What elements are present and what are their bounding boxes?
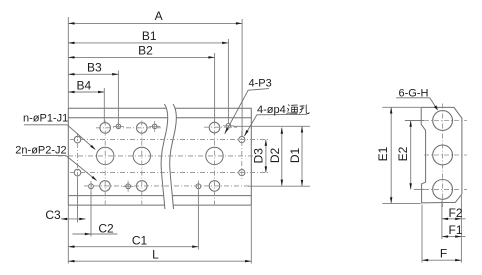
crosshair tiny top #3 [223,125,234,127]
hole side left upper [74,136,81,143]
svg-text:F: F [440,247,447,261]
centerline bottom hole row [84,185,250,187]
ext line F center column [441,201,443,240]
leader 4-op4 tail [244,114,307,136]
svg-text:L: L [152,247,159,261]
arrow B4 right [98,91,104,93]
svg-text:F1: F1 [448,223,462,237]
arrow F right [455,259,461,262]
dim line B1 [68,42,228,44]
hole G-H middle [433,145,453,165]
ext line E1 top [382,106,420,108]
ext line D1/D2 bottom [248,185,310,187]
arrow F1 left [442,235,448,238]
svg-text:n-øP1-J1: n-øP1-J1 [23,113,68,125]
arrow B1 left [68,42,74,45]
leader 2n-oP2-J2 line [66,156,96,181]
hole G-H top [433,111,453,131]
hole p4 tiny bottom #2 [126,184,131,189]
arrow E1 top [390,107,393,113]
centerline side view vertical [442,104,444,208]
arrow C3 outer-left [61,218,67,221]
hole P3 top row #1 [100,123,111,134]
leader 4-P3 tail [225,89,269,134]
label tongkong (through hole) glyphs [287,105,310,114]
center lines [58,121,270,207]
plate bottom chamfer line (left section) [68,195,163,197]
dim line A [68,22,242,24]
arrow B2 right [208,56,214,59]
glyph tong [287,105,298,114]
dim line E1 [390,107,392,203]
leader 2n-oP2-J2 underline [22,155,66,157]
plate top edge (right section) [175,107,251,109]
dim line F1 [442,236,466,238]
hole p4 tiny bottom #3 (right section) [196,184,201,189]
dim line F [422,259,461,261]
ext line C1 right [197,192,199,250]
svg-text:4-P3: 4-P3 [249,78,272,90]
arrow D1 bottom [301,180,303,186]
hole G-H bottom [433,180,453,200]
crosshair tiny top #1 [113,125,124,127]
arrow D2 bottom [281,180,284,186]
dim line C3 [61,218,86,220]
ext line E2 top [405,120,424,122]
svg-text:F2: F2 [448,206,462,220]
plate bottom edge (left section) [68,204,164,206]
crosshair tiny bottom #3 [197,181,199,192]
svg-text:D1: D1 [288,148,302,164]
hole P2 bottom row #2 [137,181,148,192]
tiny hole crosshairs [91,121,234,192]
leader n-oP1-J1 underline [24,124,67,126]
plate bottom chamfer line (right section) [172,195,251,197]
dim line D3 [265,140,267,173]
centerline column 3 [214,121,216,207]
ext line B2 right [214,53,216,123]
ext line common left [67,17,69,108]
arrow L right [245,260,251,263]
dim line C1 [68,246,198,248]
ext line A right [241,19,243,137]
arrow B4 left [68,91,74,93]
plate top chamfer line (right section) [176,117,251,119]
centerline main middle row [58,155,256,157]
svg-text:D3: D3 [252,148,266,164]
dim line B2 [68,56,214,58]
centerline side-hole row upper [70,139,270,141]
svg-text:2n-øP2-J2: 2n-øP2-J2 [15,144,66,156]
arrowhead 4-op4 [244,130,248,136]
ext line F right [460,196,462,263]
arrow B3 right [112,73,118,76]
svg-text:C1: C1 [132,233,148,247]
svg-text:6-G-H: 6-G-H [399,87,429,99]
leader n-oP1-J1 line [67,125,95,150]
arrow B2 left [68,56,74,59]
arrow D1 top [301,126,303,132]
plate right edge [250,108,252,205]
arrow C1 right [192,245,198,248]
hole side left lower [74,169,81,176]
ext line C2 right [90,192,92,237]
arrow F1 right [455,235,461,238]
centerline side view row 3 [424,188,467,190]
arrow E1 bottom [390,197,393,203]
arrow D2 top [281,128,284,134]
centerline side view row 2 [424,154,467,156]
svg-text:E1: E1 [376,146,390,161]
arrowhead J1 [90,145,96,150]
dim line D2 [281,128,283,186]
dim line C2 [72,233,117,235]
svg-text:B2: B2 [138,44,153,58]
leader 6-G-H line [430,98,437,109]
arrow B1 right [222,42,228,45]
hole P1 large #2 [133,147,150,164]
centerline top hole row right [204,126,237,128]
ext line common left bottom [67,205,69,263]
dim line F2 [442,218,466,220]
dim line B4 [68,91,104,93]
plate left edge [67,108,69,205]
dim line E2 [410,121,412,190]
arrow E2 top [409,121,412,127]
hole p4 tiny top #1 [116,124,121,129]
svg-text:C3: C3 [45,208,61,222]
arrow L left [68,260,74,263]
dim line D1 [301,126,303,186]
centerline column 2 [141,121,143,207]
arrow F2 left [442,218,448,221]
holes [74,122,245,191]
hole P3 top row #2 [137,123,148,134]
dim line L [68,260,251,262]
plate bottom edge (right section) [173,204,251,206]
ext line E1 bottom [382,202,421,204]
ext line B1 right [227,39,229,124]
ext line B4 right [103,88,105,123]
arrow B3 left [68,73,74,76]
hole P1 large #3 (right section) [206,147,223,164]
arrowhead J2 [92,176,98,181]
hole side right upper (4-op4) [239,137,245,143]
crosshair tiny bottom #1 [90,181,92,192]
ext line F left [421,205,423,263]
hole side right lower (4-op4) [239,170,245,176]
hole p4 tiny top #2 [152,124,157,129]
centerline side-hole row lower [70,172,270,174]
centerline side view row 1 [424,120,467,122]
plate top edge (left section) [68,107,166,109]
arrow C3 outer-right [79,218,85,221]
arrowhead 4-P3 [225,128,229,134]
side view outline [421,107,462,202]
svg-text:C2: C2 [98,222,114,236]
svg-text:4-øp4: 4-øp4 [257,104,286,116]
break line right (wavy) [170,104,177,209]
arrow D3 top [265,140,268,146]
hole P2 bottom row #3 (right section) [209,181,220,192]
ext line B3 right [117,71,119,127]
crosshair tiny bottom #2 [123,185,134,187]
svg-text:E2: E2 [396,146,410,161]
svg-text:B1: B1 [142,29,157,43]
arrow C2 right [85,233,91,235]
arrow A left [68,22,74,25]
leader 6-G-H underline [396,97,430,99]
arrow A right [236,22,242,25]
dim line B3 [68,73,118,75]
hole p4 tiny top #3 (right section) [226,124,231,129]
arrow E2 bottom [409,183,412,189]
ext line L right [250,205,252,263]
centerline right side-hole column [241,131,243,181]
arrow F2 right [455,218,461,221]
svg-text:B4: B4 [77,78,92,92]
hole p4 tiny bottom #1 [89,184,94,189]
hole P2 bottom row #1 [100,181,111,192]
hole P3 top row #3 (right section) [209,122,220,133]
crosshair tiny top #2 [149,125,160,127]
break line left (wavy) [161,104,168,209]
ext line D1/D2 top [233,125,310,127]
centerline top hole row left [96,127,161,129]
glyph kong [299,105,309,114]
arrowhead 6-G-H [434,105,438,110]
centerline left side-hole column [77,133,79,181]
svg-text:B3: B3 [87,61,102,75]
ext line C3 right [77,178,79,223]
arrow F left [422,259,428,262]
centerline column 1 [104,121,106,207]
svg-text:A: A [155,9,163,23]
svg-text:D2: D2 [268,148,282,164]
plate top chamfer line (left section) [68,117,167,119]
arrow D3 bottom [265,166,268,172]
hole P1 large #1 [97,147,114,164]
arrow C1 left [68,245,74,248]
ext line E2 bottom [414,188,424,190]
